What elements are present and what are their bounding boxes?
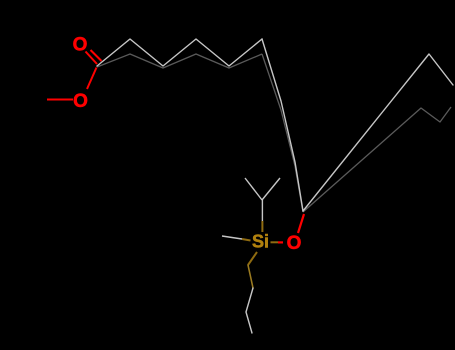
wire main zigzag chain C1-C6 <box>97 39 262 66</box>
bond O to carbinol C <box>298 214 304 233</box>
bond ester O to methyl <box>47 99 73 101</box>
double bond C=O <box>86 52 98 65</box>
isopropyl branch right <box>262 178 280 200</box>
svg-text:O: O <box>287 233 302 254</box>
bond Si down gold stub <box>248 252 257 265</box>
wire tail lower <box>246 288 253 333</box>
isopropyl branch left <box>245 178 262 200</box>
wire Si down tail <box>248 265 253 288</box>
svg-text:Si: Si <box>252 232 269 252</box>
bond Si-O red half <box>278 241 283 243</box>
svg-text:O: O <box>73 91 88 112</box>
bond C1 to ester O <box>87 68 97 90</box>
bond Si up gold stub <box>261 221 263 232</box>
bond Si left gold stub <box>242 239 251 241</box>
wire faint secondary descent <box>262 54 303 212</box>
wire chain right diagonal carbinol to top right <box>303 54 453 211</box>
bond Si-O gold half <box>271 241 279 243</box>
bond Si left white part <box>222 236 242 239</box>
wire faint secondary zigzag layer <box>97 54 262 68</box>
bond Si up white part <box>261 200 263 221</box>
wire faint secondary right diagonal <box>303 107 451 212</box>
wire chain descent C6 to carbinol C <box>262 39 303 211</box>
